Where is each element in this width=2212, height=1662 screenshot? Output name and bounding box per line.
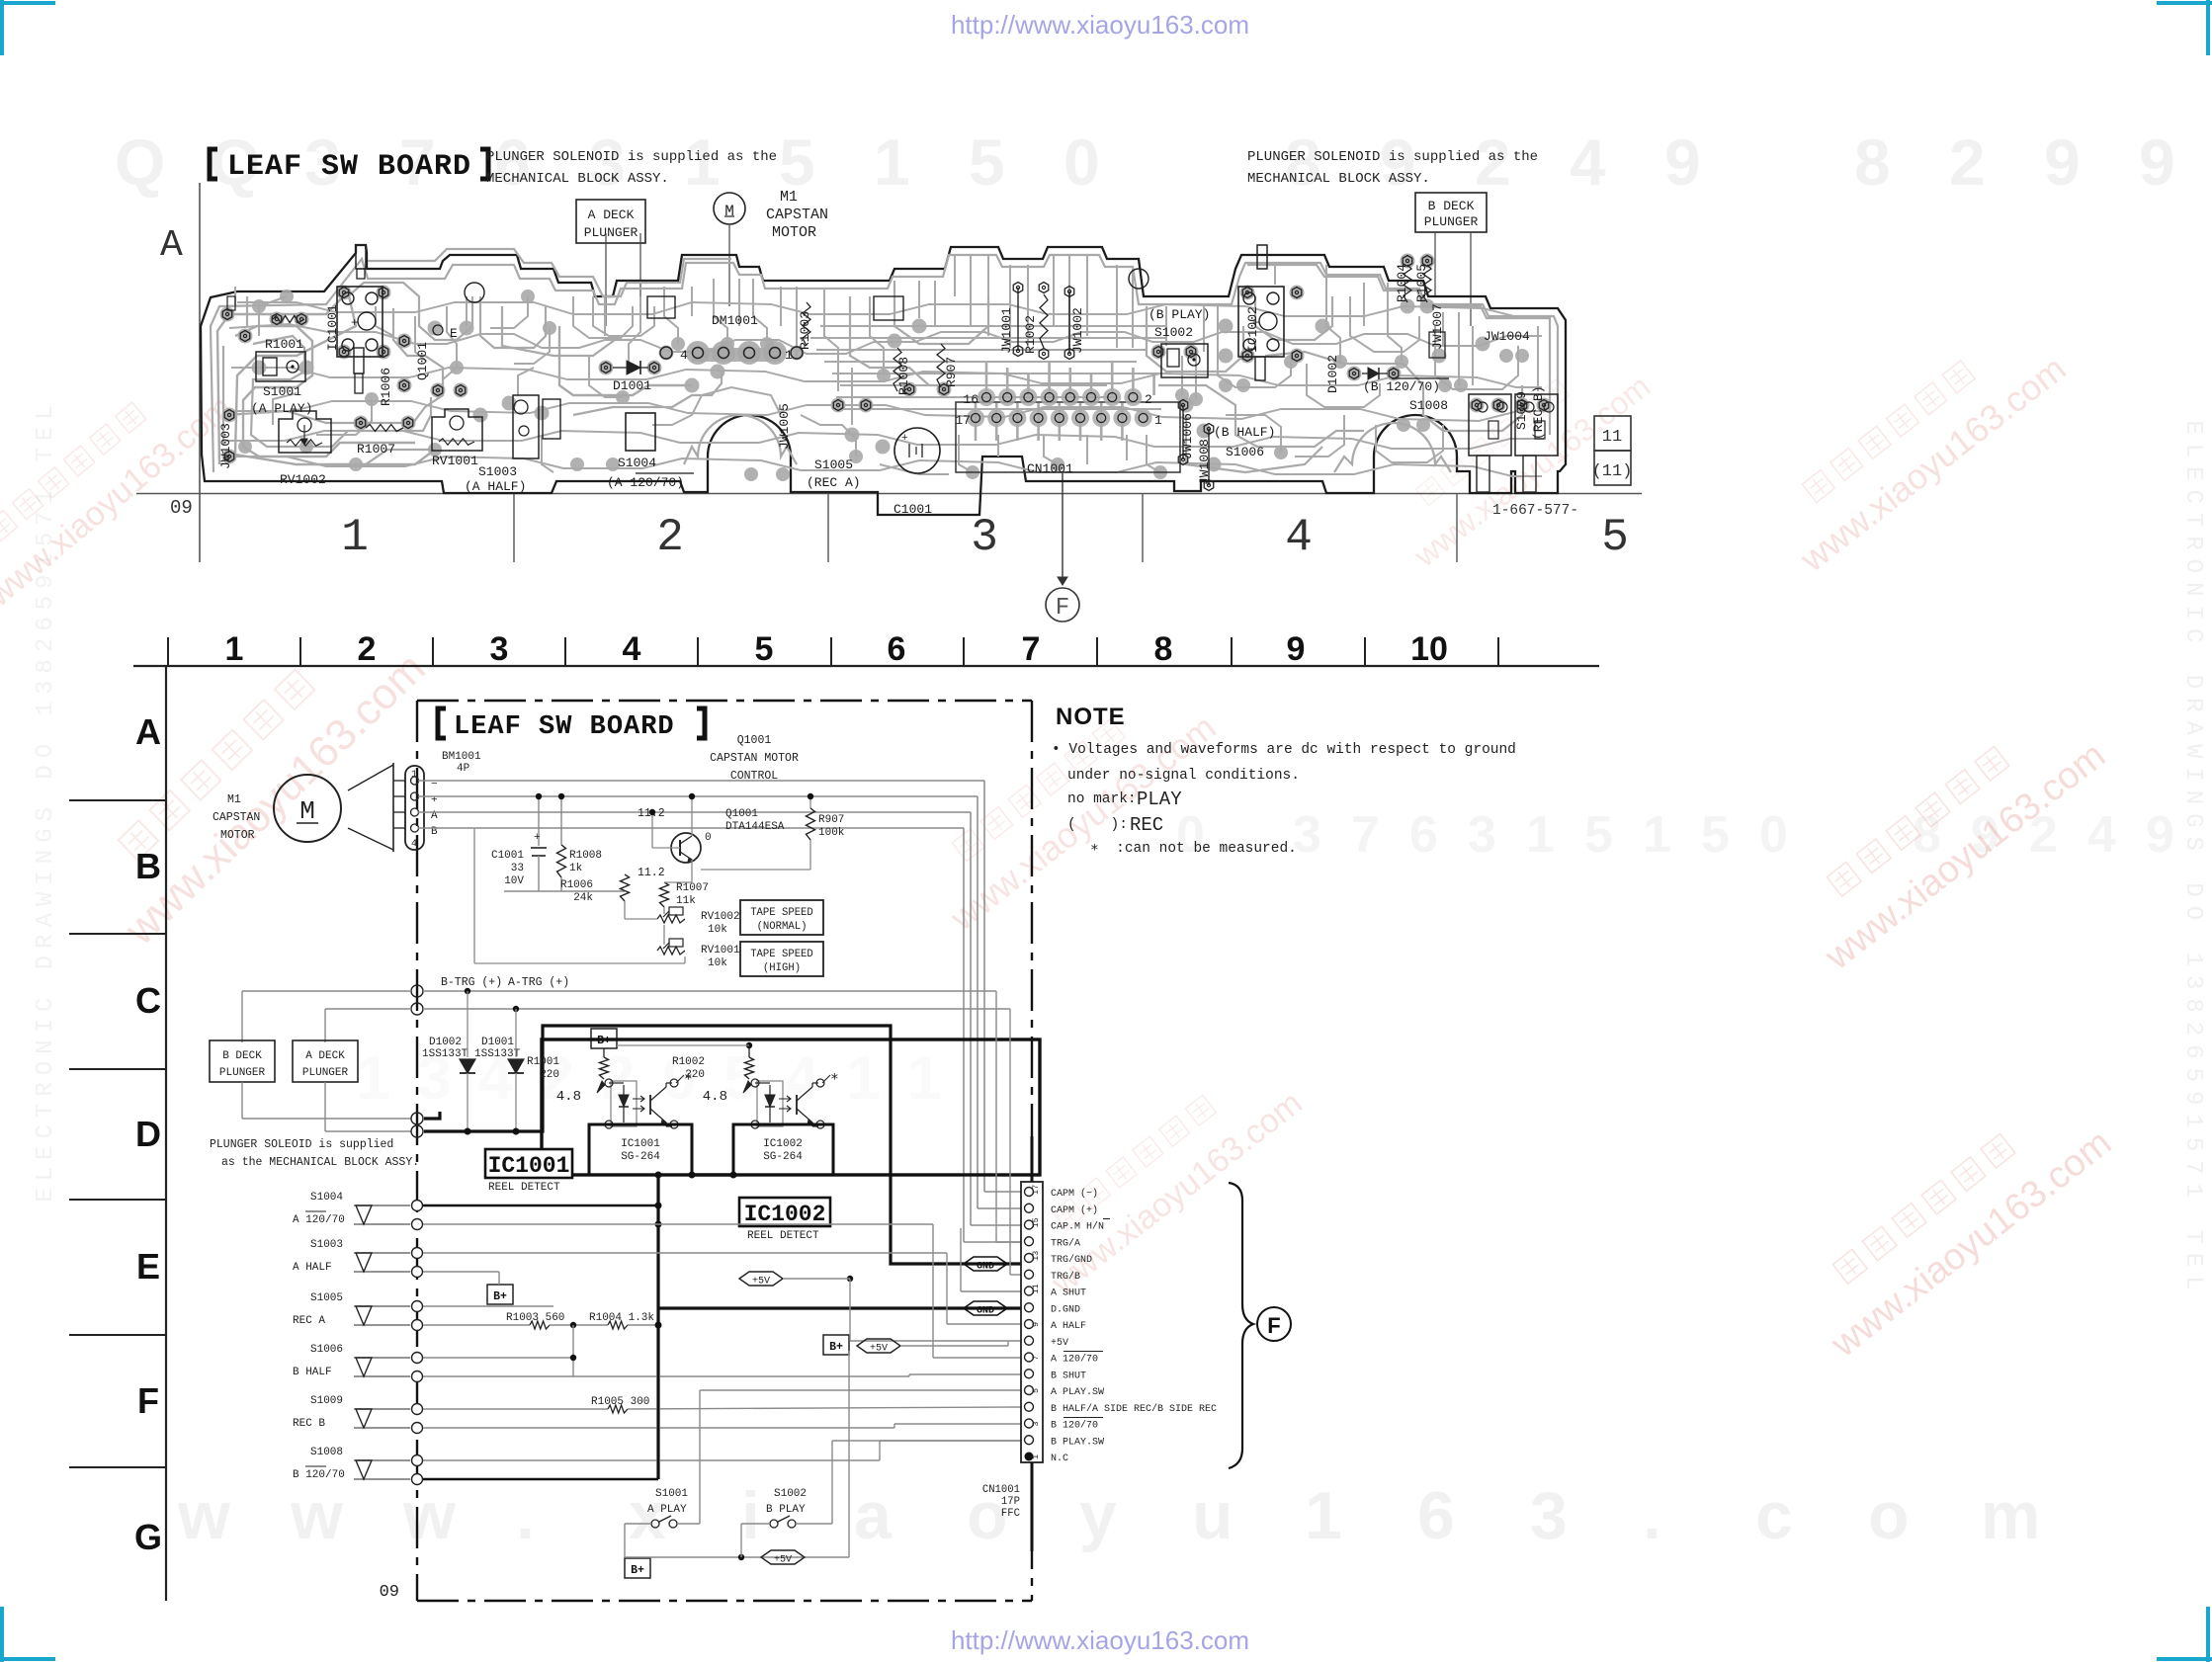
svg-text:S1006: S1006 (1226, 445, 1264, 459)
svg-text:∗ :can not be measured.: ∗ :can not be measured. (1090, 841, 1297, 857)
svg-text:REC A: REC A (293, 1315, 325, 1327)
svg-text:DTA144ESA: DTA144ESA (725, 821, 785, 833)
svg-text:3: 3 (490, 630, 509, 668)
svg-text:13: 13 (1031, 1251, 1041, 1261)
svg-text:R1001: R1001 (265, 337, 303, 352)
svg-text:B DECK: B DECK (222, 1050, 262, 1062)
svg-text:2: 2 (1145, 392, 1152, 407)
svg-text:+: + (901, 433, 908, 445)
svg-text:(NORMAL): (NORMAL) (757, 921, 808, 933)
svg-text:5: 5 (1701, 806, 1730, 864)
svg-text:F: F (1267, 1313, 1280, 1338)
svg-text:E: E (450, 326, 458, 341)
svg-text:10k: 10k (708, 924, 727, 936)
svg-text:PLUNGER: PLUNGER (1424, 214, 1479, 229)
svg-text:4: 4 (1285, 512, 1313, 563)
svg-text:LEAF SW BOARD: LEAF SW BOARD (454, 712, 675, 742)
svg-text:11.2: 11.2 (638, 867, 665, 879)
svg-text:Q: Q (115, 125, 165, 199)
svg-text:CAPSTAN: CAPSTAN (213, 811, 260, 824)
svg-text:5: 5 (779, 125, 815, 199)
svg-text:Q1001: Q1001 (415, 342, 430, 380)
svg-text:17: 17 (1031, 1185, 1041, 1195)
svg-text:PLUNGER SOLENOID is supplied a: PLUNGER SOLENOID is supplied as the (486, 149, 777, 165)
svg-text:M1: M1 (780, 189, 798, 206)
svg-text:LEAF SW BOARD: LEAF SW BOARD (227, 150, 471, 184)
svg-text:0: 0 (1759, 806, 1788, 864)
svg-text:+5V: +5V (870, 1344, 888, 1355)
svg-text:∗: ∗ (684, 1070, 693, 1086)
svg-text:B PLAY.SW: B PLAY.SW (1051, 1437, 1104, 1448)
svg-text:RV1002: RV1002 (280, 472, 326, 487)
svg-text:9: 9 (2146, 806, 2174, 864)
svg-text:S1002: S1002 (1154, 325, 1193, 340)
svg-text:6: 6 (1409, 806, 1438, 864)
svg-text:M1: M1 (227, 793, 241, 806)
svg-text:A PLAY: A PLAY (647, 1504, 687, 1516)
svg-text:IC1002: IC1002 (1245, 306, 1260, 353)
svg-text:6: 6 (888, 630, 906, 668)
svg-text:PLAY: PLAY (1137, 789, 1182, 810)
svg-text:D: D (135, 1114, 161, 1154)
svg-text:no mark:: no mark: (1067, 791, 1137, 807)
svg-text:(A HALF): (A HALF) (465, 479, 526, 494)
svg-text:IC1001: IC1001 (621, 1138, 660, 1150)
svg-text:CAP.M H/N: CAP.M H/N (1051, 1221, 1104, 1233)
svg-text:w: w (290, 1478, 344, 1553)
svg-text:S1001: S1001 (263, 384, 301, 399)
svg-text:B DECK: B DECK (1428, 199, 1475, 213)
svg-text:4: 4 (680, 348, 688, 363)
svg-text:9: 9 (1664, 125, 1701, 199)
svg-text:JW1001: JW1001 (999, 307, 1014, 354)
svg-text:B PLAY: B PLAY (766, 1504, 806, 1516)
svg-text:S1009: S1009 (1514, 391, 1529, 430)
svg-text:B 120/70: B 120/70 (1051, 1420, 1098, 1432)
svg-text:w: w (402, 1478, 457, 1553)
svg-text:A 120/70: A 120/70 (1051, 1354, 1098, 1366)
svg-text:S1003: S1003 (310, 1239, 343, 1251)
svg-text:CAPM (−): CAPM (−) (1051, 1188, 1098, 1200)
svg-text:JW1007: JW1007 (1430, 303, 1445, 350)
svg-text:A HALF: A HALF (293, 1262, 332, 1274)
svg-text:1: 1 (341, 512, 369, 563)
svg-text:D.GND: D.GND (1051, 1304, 1080, 1315)
svg-text:B HALF: B HALF (293, 1367, 332, 1378)
svg-text:A PLAY.SW: A PLAY.SW (1051, 1387, 1104, 1398)
svg-text:220: 220 (540, 1069, 559, 1081)
svg-text:4: 4 (785, 1044, 819, 1113)
svg-text:10k: 10k (708, 957, 727, 969)
svg-text:A: A (135, 711, 161, 752)
svg-text:CAPM (+): CAPM (+) (1051, 1205, 1098, 1216)
svg-text:0: 0 (705, 832, 712, 844)
svg-text:REC: REC (1130, 814, 1163, 836)
svg-text:4.8: 4.8 (703, 1089, 727, 1105)
svg-text:3: 3 (1530, 1478, 1568, 1553)
svg-text:3: 3 (1468, 806, 1496, 864)
svg-text:1: 1 (874, 125, 910, 199)
svg-text:(B 120/70): (B 120/70) (1363, 379, 1440, 394)
svg-text:5: 5 (969, 125, 1005, 199)
svg-text:33: 33 (511, 863, 524, 874)
svg-text:3: 3 (971, 512, 998, 563)
svg-text:10: 10 (1410, 630, 1448, 668)
svg-text:24k: 24k (573, 892, 593, 904)
svg-text:CN1001: CN1001 (1027, 461, 1073, 476)
svg-text:09: 09 (380, 1583, 399, 1602)
svg-text:4: 4 (2087, 806, 2116, 864)
svg-text:PLUNGER: PLUNGER (219, 1067, 266, 1079)
svg-text:3: 3 (1031, 1421, 1041, 1426)
svg-text:1SS133T: 1SS133T (422, 1048, 468, 1060)
svg-text:S1009: S1009 (310, 1395, 343, 1407)
svg-text:11.2: 11.2 (638, 807, 665, 820)
svg-text:as the MECHANICAL BLOCK ASSY.: as the MECHANICAL BLOCK ASSY. (221, 1156, 419, 1169)
svg-text:B 120/70: B 120/70 (293, 1469, 345, 1481)
svg-text:(A 120/70): (A 120/70) (607, 475, 684, 490)
svg-text:IC1001: IC1001 (325, 304, 340, 351)
svg-text:A: A (160, 224, 183, 267)
svg-text:7: 7 (1031, 1355, 1041, 1360)
svg-text:(REC B): (REC B) (1531, 385, 1546, 440)
svg-text:1-667-577-: 1-667-577- (1492, 503, 1578, 519)
svg-text:R1008: R1008 (896, 357, 911, 395)
svg-text:9: 9 (1031, 1322, 1041, 1327)
svg-text:http://www.xiaoyu163.com: http://www.xiaoyu163.com (951, 1625, 1249, 1655)
svg-text:4: 4 (1570, 125, 1606, 199)
svg-text:(REC A): (REC A) (807, 475, 861, 490)
svg-text:MECHANICAL BLOCK ASSY.: MECHANICAL BLOCK ASSY. (486, 171, 669, 187)
svg-text:A DECK: A DECK (305, 1050, 345, 1062)
svg-text:(A PLAY): (A PLAY) (251, 401, 312, 416)
svg-text:PLUNGER SOLENOID is supplied a: PLUNGER SOLENOID is supplied as the (1247, 149, 1538, 165)
svg-text:1: 1 (411, 770, 417, 781)
svg-text:5: 5 (1584, 806, 1613, 864)
svg-text:1: 1 (1526, 806, 1555, 864)
svg-text:A HALF: A HALF (1051, 1321, 1086, 1332)
svg-text:ELECTRONIC DRAWINGS DO 1382659: ELECTRONIC DRAWINGS DO 13826591571 TEL (2179, 420, 2206, 1298)
svg-text:Q1001: Q1001 (725, 808, 758, 820)
svg-text:8: 8 (1854, 125, 1891, 199)
svg-text:R1001: R1001 (527, 1056, 559, 1068)
svg-text:i: i (741, 1478, 760, 1553)
svg-text:R1002: R1002 (1023, 315, 1038, 354)
svg-text:9: 9 (2139, 125, 2175, 199)
svg-text:JW1006: JW1006 (1180, 413, 1195, 459)
svg-text:R1008: R1008 (569, 850, 602, 862)
svg-text:15: 15 (1031, 1217, 1041, 1227)
svg-text:R1006: R1006 (560, 879, 593, 891)
svg-text:2: 2 (358, 630, 377, 668)
svg-text:7: 7 (1022, 630, 1041, 668)
svg-text:17: 17 (955, 413, 971, 428)
svg-text:S1005: S1005 (814, 457, 853, 472)
svg-text:D1001: D1001 (481, 1037, 514, 1048)
svg-text:5: 5 (1601, 512, 1629, 563)
svg-text:R1006: R1006 (379, 368, 393, 406)
svg-text:1: 1 (907, 1044, 941, 1113)
svg-text:MECHANICAL BLOCK ASSY.: MECHANICAL BLOCK ASSY. (1247, 171, 1430, 187)
svg-text:(B HALF): (B HALF) (1214, 425, 1275, 440)
svg-text:JW1005: JW1005 (777, 403, 792, 450)
svg-text:2: 2 (1949, 125, 1986, 199)
svg-text:7: 7 (1351, 806, 1380, 864)
svg-text:5: 5 (723, 1044, 757, 1113)
svg-text:B+: B+ (631, 1564, 644, 1577)
svg-text:MOTOR: MOTOR (772, 224, 816, 241)
svg-text:+: + (351, 316, 358, 330)
svg-text:R1002: R1002 (672, 1056, 705, 1068)
svg-text:(HIGH): (HIGH) (763, 962, 801, 974)
svg-text:S1008: S1008 (310, 1447, 343, 1458)
svg-text:R1005 300: R1005 300 (591, 1396, 649, 1408)
svg-text:6: 6 (1417, 1478, 1455, 1553)
svg-text:1: 1 (1031, 1454, 1041, 1459)
svg-text:5: 5 (755, 630, 774, 668)
svg-text:E: E (136, 1246, 160, 1287)
svg-text:IC1001: IC1001 (488, 1153, 570, 1179)
svg-text:S1006: S1006 (310, 1344, 343, 1356)
svg-text:REC B: REC B (293, 1418, 325, 1430)
svg-text:S1004: S1004 (618, 456, 656, 470)
svg-text:TAPE SPEED: TAPE SPEED (750, 949, 813, 960)
svg-text:5: 5 (1031, 1388, 1041, 1393)
svg-text:+5V: +5V (1051, 1338, 1068, 1349)
svg-text:Q1001: Q1001 (737, 734, 772, 747)
svg-text:11k: 11k (676, 895, 696, 907)
svg-text:1: 1 (1305, 1478, 1342, 1553)
svg-text:a: a (854, 1478, 893, 1553)
svg-text:PLUNGER SOLEOID is supplied: PLUNGER SOLEOID is supplied (210, 1138, 393, 1151)
svg-text:R1003: R1003 (798, 311, 812, 350)
svg-text:1k: 1k (569, 863, 583, 874)
svg-text:RV1001: RV1001 (432, 454, 478, 468)
svg-text:IC1002: IC1002 (763, 1138, 803, 1150)
svg-text:SG-264: SG-264 (763, 1151, 803, 1163)
svg-text:R1004 1.3k: R1004 1.3k (589, 1312, 654, 1324)
svg-text:R1007: R1007 (357, 442, 395, 457)
svg-text:S1008: S1008 (1409, 398, 1448, 413)
svg-text:16: 16 (963, 392, 978, 407)
svg-text:• Voltages and waveforms are d: • Voltages and waveforms are dc with res… (1052, 742, 1516, 758)
svg-text:+: + (534, 832, 541, 844)
svg-text:o: o (1868, 1478, 1910, 1553)
svg-text:B SHUT: B SHUT (1051, 1371, 1086, 1381)
svg-text:S1003: S1003 (478, 464, 517, 479)
svg-text:11: 11 (1602, 428, 1622, 447)
svg-text:MOTOR: MOTOR (220, 829, 255, 842)
svg-text:4: 4 (623, 630, 641, 668)
svg-text:1: 1 (846, 1044, 880, 1113)
svg-text:TRG/B: TRG/B (1051, 1271, 1080, 1283)
svg-text:(11): (11) (1592, 462, 1633, 481)
svg-text:.: . (1643, 1478, 1661, 1553)
svg-text:2: 2 (601, 1044, 635, 1113)
svg-text:c: c (1755, 1478, 1793, 1553)
svg-text:D1002: D1002 (1325, 355, 1340, 393)
svg-text:JW1008: JW1008 (1197, 439, 1212, 485)
svg-text:M: M (724, 203, 734, 220)
svg-text:BM1001: BM1001 (442, 751, 481, 763)
svg-text:REEL DETECT: REEL DETECT (488, 1182, 560, 1194)
svg-text:B+: B+ (829, 1341, 843, 1354)
svg-text:IC1002: IC1002 (744, 1202, 826, 1227)
svg-text:R1004: R1004 (1395, 264, 1409, 302)
svg-text:9: 9 (2044, 125, 2081, 199)
svg-text:GND: GND (977, 1262, 994, 1273)
svg-text:R1003 560: R1003 560 (506, 1312, 564, 1324)
svg-text:D1001: D1001 (613, 378, 651, 393)
svg-text:+5V: +5V (774, 1555, 792, 1566)
svg-text:CAPSTAN MOTOR: CAPSTAN MOTOR (710, 752, 799, 765)
svg-text:DM1001: DM1001 (712, 313, 758, 328)
svg-text:B-TRG (+): B-TRG (+) (441, 976, 502, 989)
svg-text:F: F (1056, 595, 1069, 622)
svg-text:100k: 100k (818, 827, 845, 839)
svg-text:SG-264: SG-264 (621, 1151, 660, 1163)
svg-text:A SHUT: A SHUT (1051, 1288, 1086, 1299)
svg-text:REEL DETECT: REEL DETECT (747, 1230, 819, 1242)
svg-text:B: B (135, 846, 161, 886)
svg-text:A-TRG (+): A-TRG (+) (508, 976, 569, 989)
svg-text:JW1004: JW1004 (1484, 329, 1530, 344)
svg-text:F: F (137, 1380, 159, 1421)
svg-text:C1001: C1001 (893, 502, 932, 517)
svg-text:TRG/GND: TRG/GND (1051, 1254, 1092, 1266)
svg-text:S1004: S1004 (310, 1192, 343, 1204)
svg-text:1: 1 (1154, 413, 1162, 428)
svg-text:B HALF/A SIDE REC/B SIDE REC: B HALF/A SIDE REC/B SIDE REC (1051, 1403, 1217, 1415)
svg-text:C: C (135, 980, 161, 1021)
svg-text:1: 1 (785, 348, 793, 363)
svg-text:4P: 4P (457, 763, 470, 775)
svg-text:NOTE: NOTE (1056, 704, 1126, 730)
svg-text:10V: 10V (504, 875, 524, 887)
svg-text:RV1001: RV1001 (701, 945, 740, 956)
svg-text:S1005: S1005 (310, 1292, 343, 1304)
svg-text:CN1001: CN1001 (982, 1484, 1020, 1496)
svg-text:D1002: D1002 (429, 1037, 462, 1048)
svg-text:http://www.xiaoyu163.com: http://www.xiaoyu163.com (951, 10, 1249, 40)
svg-text:11: 11 (1031, 1284, 1041, 1293)
svg-text:FFC: FFC (1001, 1508, 1020, 1520)
svg-text:8: 8 (1154, 630, 1173, 668)
svg-text:M: M (299, 796, 315, 826)
svg-text:RV1002: RV1002 (701, 911, 740, 923)
svg-text:( ):: ( ): (1067, 817, 1128, 833)
svg-text:under no-signal conditions.: under no-signal conditions. (1067, 768, 1300, 784)
svg-text:1: 1 (356, 1044, 389, 1113)
svg-text:4.8: 4.8 (556, 1089, 581, 1105)
svg-text:ELECTRONIC DRAWINGS DO 1382659: ELECTRONIC DRAWINGS DO 13826591571 TEL (33, 398, 59, 1202)
svg-text:09: 09 (170, 497, 193, 519)
svg-text:C1001: C1001 (491, 850, 524, 862)
svg-text:PLUNGER: PLUNGER (584, 225, 638, 240)
svg-text:JW1002: JW1002 (1070, 307, 1085, 354)
svg-text:17P: 17P (1001, 1496, 1020, 1508)
svg-text:S1002: S1002 (774, 1488, 807, 1500)
svg-text:TRG/A: TRG/A (1051, 1237, 1080, 1249)
svg-text:1SS133T: 1SS133T (474, 1048, 521, 1060)
svg-text:TAPE SPEED: TAPE SPEED (750, 907, 813, 919)
svg-text:4: 4 (411, 839, 417, 850)
svg-text:R907: R907 (818, 814, 844, 826)
svg-text:R1005: R1005 (1414, 264, 1429, 302)
svg-text:JW1003: JW1003 (218, 423, 233, 469)
svg-text:PLUNGER: PLUNGER (302, 1067, 349, 1079)
svg-text:9: 9 (1287, 630, 1306, 668)
svg-text:B+: B+ (493, 1290, 507, 1303)
svg-text:G: G (134, 1517, 162, 1557)
svg-text:R907: R907 (944, 357, 959, 387)
svg-text:u: u (1192, 1478, 1234, 1553)
svg-text:y: y (1079, 1478, 1117, 1553)
svg-text:S1001: S1001 (655, 1488, 688, 1500)
svg-text:1: 1 (225, 630, 244, 668)
svg-text:∗: ∗ (830, 1070, 839, 1086)
svg-text:m: m (1981, 1478, 2040, 1553)
svg-text:N.C: N.C (1051, 1454, 1068, 1464)
svg-text:1: 1 (1643, 806, 1671, 864)
svg-text:A DECK: A DECK (588, 208, 635, 222)
svg-text:.: . (516, 1478, 535, 1553)
svg-text:R1007: R1007 (676, 882, 709, 894)
svg-text:CAPSTAN: CAPSTAN (766, 207, 828, 223)
svg-text:3: 3 (1293, 806, 1321, 864)
svg-text:2: 2 (656, 512, 684, 563)
svg-text:+5V: +5V (752, 1277, 770, 1288)
svg-text:0: 0 (1063, 125, 1100, 199)
svg-text:(B PLAY): (B PLAY) (1149, 307, 1210, 322)
svg-text:A 120/70: A 120/70 (293, 1214, 345, 1226)
svg-text:w: w (177, 1478, 231, 1553)
